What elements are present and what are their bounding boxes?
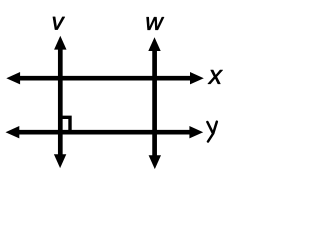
label w: [147, 17, 164, 30]
label x: [208, 70, 223, 84]
line w (vertical): [148, 37, 161, 169]
line v (vertical): [54, 36, 67, 168]
label y: [207, 122, 216, 142]
label v: [53, 17, 65, 30]
line y (horizontal): [6, 126, 204, 138]
line x (horizontal): [6, 72, 204, 84]
right-angle marker at v-y intersection: [60, 117, 70, 132]
